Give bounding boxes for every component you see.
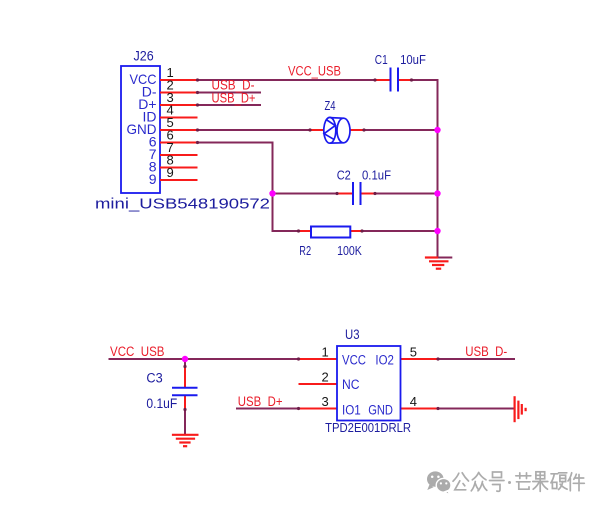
svg-text:GND: GND [368,403,393,418]
svg-text:IO2: IO2 [375,353,394,368]
svg-text:100K: 100K [337,243,362,258]
svg-text:5: 5 [410,345,417,360]
svg-text:3: 3 [322,394,329,409]
svg-text:mini_USB548190572: mini_USB548190572 [95,196,270,213]
svg-text:2: 2 [322,370,329,385]
svg-text:VCC: VCC [342,353,366,368]
svg-text:NC: NC [342,377,360,392]
svg-text:0.1uF: 0.1uF [146,396,177,411]
svg-text:Z4: Z4 [325,98,336,113]
svg-text:IO1: IO1 [342,403,361,418]
svg-text:R2: R2 [299,243,311,258]
svg-text:C2: C2 [337,168,351,183]
svg-text:USB_D-: USB_D- [465,344,507,359]
svg-text:1: 1 [322,345,329,360]
svg-text:USB_D+: USB_D+ [238,394,283,409]
svg-text:VCC_USB: VCC_USB [110,344,165,359]
svg-text:VCC_USB: VCC_USB [288,64,341,79]
svg-text:9: 9 [149,171,157,187]
svg-text:9: 9 [167,165,174,180]
svg-text:4: 4 [410,394,417,409]
svg-text:10uF: 10uF [400,52,426,67]
svg-text:USB_D+: USB_D+ [212,91,256,106]
svg-text:C3: C3 [146,371,162,386]
svg-text:C1: C1 [375,52,388,67]
svg-text:U3: U3 [345,327,360,342]
svg-text:0.1uF: 0.1uF [362,168,391,183]
svg-text:TPD2E001DRLR: TPD2E001DRLR [325,421,411,435]
svg-text:J26: J26 [134,49,154,64]
